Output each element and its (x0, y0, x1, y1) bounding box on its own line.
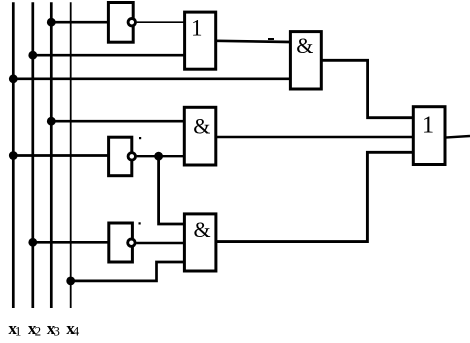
wire D4 output to OR gate D5 input 3 (216, 152, 413, 241)
svg-text:&: & (193, 114, 210, 139)
svg-text:2: 2 (35, 324, 42, 339)
input label x1 (8, 319, 21, 339)
wire D1 output to AND gate D2 (216, 41, 291, 42)
input bus line x1 (12, 2, 15, 308)
svg-text:&: & (193, 217, 210, 242)
input label x4 (66, 319, 80, 339)
junction on x3 at U1 tap (47, 18, 56, 27)
input label x3 (47, 319, 60, 339)
stray speck above U2 (139, 137, 141, 139)
svg-text:3: 3 (53, 324, 60, 339)
wire U2 output branch down to AND gate D4 input 1 (159, 156, 185, 224)
AND gate D2 (290, 32, 321, 89)
wire x1 to inverter U2 input (13, 154, 108, 157)
input label x2 (28, 319, 41, 339)
wire D3 output to OR gate D5 input 2 (216, 136, 413, 138)
wire x3 to AND gate D3 input 1 (51, 120, 184, 123)
svg-text:&: & (296, 33, 313, 58)
input bus line x2 (31, 2, 34, 308)
inverter U2 (109, 137, 136, 176)
svg-text:1: 1 (191, 16, 203, 41)
inverter U3 (109, 223, 135, 262)
junction on x1 at D2 tap (9, 74, 18, 83)
wire U1 output to OR gate D1 (137, 21, 185, 23)
junction on x1 at U2 tap (9, 151, 18, 160)
OR gate D5 (413, 107, 445, 165)
wire x2 to inverter U3 input (33, 241, 109, 244)
wire D2 output to OR gate D5 input 1 (321, 60, 413, 117)
wire U3 output to AND gate D4 input 2 (136, 242, 184, 245)
OR gate D1 (185, 12, 216, 69)
wire x4 to AND gate D4 input 3 (71, 262, 185, 281)
junction node on U2 output branch (154, 152, 163, 161)
svg-text:4: 4 (73, 324, 80, 339)
junction on x2 at U3 tap (28, 238, 37, 247)
svg-text:1: 1 (15, 324, 22, 339)
input bus line x4 (70, 2, 72, 308)
AND gate D4 (184, 214, 216, 271)
wire U2 output to AND gate D3 input 2 (137, 155, 185, 157)
wire x2 to OR gate D1 input 2 (33, 54, 185, 57)
stray mark near D2 input (268, 38, 274, 40)
wire x1 to AND gate D2 input 2 (13, 77, 290, 80)
junction on x4 at D4 tap (66, 277, 75, 286)
wire D5 output (445, 136, 470, 138)
AND gate D3 (184, 107, 216, 165)
junction on x2 at D1 tap (28, 51, 37, 60)
inverter U1 (108, 3, 135, 43)
wire x3 to inverter U1 input (51, 21, 108, 24)
input bus line x3 (50, 2, 53, 308)
svg-text:1: 1 (422, 111, 434, 138)
stray speck above U3 (139, 222, 141, 224)
junction on x3 at D3 tap (47, 117, 56, 126)
